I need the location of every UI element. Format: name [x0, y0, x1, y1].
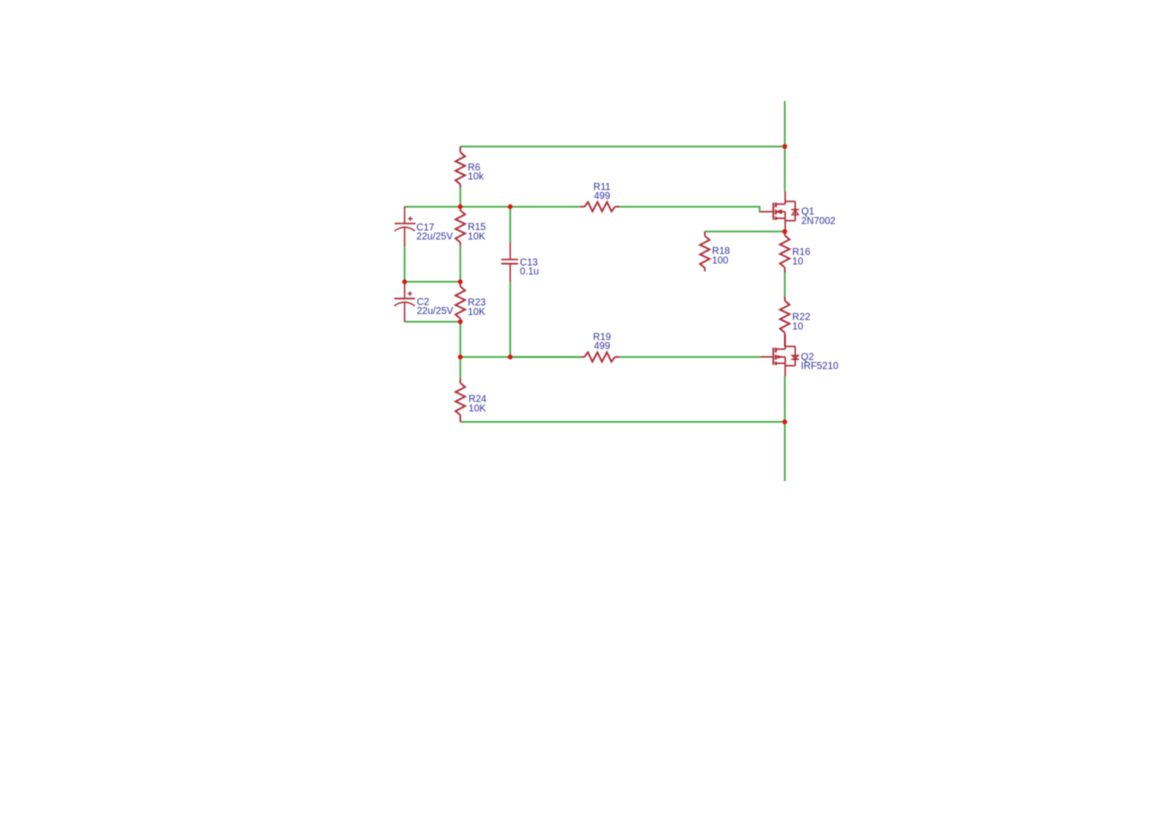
wire R19 net horizontal left	[460, 356, 581, 358]
svg-text:10K: 10K	[468, 307, 486, 318]
resistor R15 bottom lead	[459, 242, 461, 245]
transistor Q1 source horizontal from channel	[776, 217, 786, 219]
transistor Q1 drain lead	[784, 191, 786, 204]
resistor R16 bottom lead	[784, 268, 786, 273]
svg-text:499: 499	[594, 341, 610, 352]
wire C17 bottom to node row	[404, 246, 406, 282]
transistor Q1 body arrow (hollow, pointing to channel)	[777, 210, 782, 213]
svg-text:2N7002: 2N7002	[801, 216, 835, 227]
capacitor C17 top plate	[395, 223, 416, 225]
junction C17/C2 at R15/R23	[458, 279, 463, 284]
junction C2 bottom at R23	[458, 319, 463, 324]
transistor Q2 gate lead	[760, 356, 772, 358]
wire top horizontal	[460, 146, 785, 148]
svg-text:10k: 10k	[468, 172, 484, 183]
resistor R24 bottom lead	[459, 415, 461, 422]
wire C13 bottom segment	[509, 282, 511, 357]
wire R11 net horizontal right with jog to Q1 gate	[619, 207, 761, 212]
resistor R11 499	[585, 202, 616, 211]
capacitor C13 bottom plate	[501, 263, 518, 265]
transistor Q2 body line	[777, 356, 786, 358]
resistor R16 10	[780, 236, 790, 268]
transistor Q2 gate bar	[772, 348, 774, 365]
transistor Q1 drain horizontal to channel	[776, 203, 786, 205]
svg-text:499: 499	[594, 191, 610, 202]
transistor Q2 source lead	[784, 335, 786, 349]
wire C13 top segment	[509, 207, 511, 243]
resistor R6 bottom lead	[459, 184, 461, 187]
wire C2 bottom horizontal	[405, 321, 461, 323]
transistor Q2 drain horizontal from channel	[776, 362, 786, 364]
svg-text:100: 100	[712, 256, 729, 267]
transistor Q2 body-drain vertical	[784, 357, 786, 363]
wire right vertical rail top segment	[784, 101, 786, 191]
wire R16 to R22 segment	[784, 272, 786, 296]
resistor R23 10K	[456, 287, 466, 319]
resistor R23 top lead	[459, 282, 461, 287]
resistor R15 10K	[456, 210, 466, 242]
transistor Q2 source tee to body diode	[785, 345, 795, 347]
resistor R6 top lead	[459, 147, 461, 153]
transistor Q1 body-source vertical	[784, 212, 786, 219]
svg-text:10: 10	[792, 321, 803, 332]
transistor Q2 body diode cathode bar	[791, 358, 799, 360]
transistor Q2 body diode branch	[794, 346, 796, 365]
transistor Q1 body diode branch	[794, 201, 796, 220]
junction R19 net at C13	[508, 355, 513, 360]
capacitor C13 top lead	[509, 242, 511, 259]
capacitor C13 top plate	[501, 259, 518, 261]
wire R11 net horizontal left	[405, 206, 580, 208]
transistor Q1 gate bar	[772, 203, 774, 220]
transistor Q2 drain lead	[784, 363, 786, 376]
transistor Q1 drain tee to body diode	[785, 200, 795, 202]
capacitor C2 bottom lead	[404, 303, 406, 322]
svg-text:10K: 10K	[469, 404, 487, 415]
junction bottom rail	[782, 420, 787, 425]
junction top-right	[782, 144, 787, 149]
capacitor C2 plus sign	[408, 292, 412, 296]
wire bottom horizontal	[460, 421, 785, 423]
svg-text:22u/25V: 22u/25V	[417, 306, 454, 317]
junction C17/C2 left	[402, 279, 407, 284]
resistor R24 10K	[456, 383, 466, 415]
transistor Q1 body line	[777, 211, 786, 213]
transistor Q1 body diode triangle	[792, 210, 799, 215]
transistor Q2 source horizontal to channel	[776, 348, 786, 350]
resistor R22 10	[780, 301, 790, 333]
resistor R11 left lead	[580, 206, 584, 208]
junction R11 net at C13	[508, 204, 513, 209]
wire left column vertical between nodes	[459, 322, 461, 357]
capacitor C2 bottom curved plate	[394, 302, 415, 306]
wire node row C17/R15 horizontal	[405, 281, 461, 283]
transistor Q2 body diode triangle	[792, 355, 799, 358]
svg-text:10K: 10K	[468, 231, 486, 242]
resistor R18 100	[700, 236, 710, 268]
transistor Q1 body diode cathode bar	[791, 209, 799, 211]
transistor Q2 channel bottom segment	[775, 362, 777, 365]
transistor Q1 source lead	[784, 218, 786, 231]
capacitor C2 top plate	[394, 298, 415, 300]
capacitor C2 top lead	[404, 282, 406, 298]
transistor Q1 channel top segment	[775, 203, 777, 208]
resistor R18 top lead	[704, 232, 706, 236]
resistor R19 499	[584, 352, 615, 361]
transistor Q1 gate lead	[761, 211, 773, 213]
resistor R16 top lead	[784, 232, 786, 236]
transistor Q2 channel middle segment	[775, 355, 777, 360]
resistor R22 bottom lead	[784, 333, 786, 347]
transistor Q2 channel top segment	[775, 348, 777, 353]
resistor R19 right lead	[615, 356, 620, 358]
capacitor C13 bottom lead	[509, 264, 511, 282]
junction Q1 source / R16 / R18	[782, 229, 787, 234]
resistor R22 top lead	[784, 297, 786, 301]
wire R24 top segment	[459, 357, 461, 379]
wire R19 net center segment	[510, 356, 581, 358]
transistor Q1 channel bottom segment	[775, 217, 777, 220]
svg-text:22u/25V: 22u/25V	[416, 232, 453, 243]
resistor R23 bottom lead	[459, 319, 461, 322]
capacitor C17 bottom curved plate	[395, 227, 415, 231]
resistor R6 10k	[456, 152, 466, 184]
transistor Q2 body arrow (filled, pointing outward)	[778, 355, 784, 358]
svg-text:10: 10	[792, 257, 803, 268]
junction R11 net at R15	[458, 204, 463, 209]
junction R19 net at left column	[458, 355, 463, 360]
resistor R11 right lead	[615, 206, 619, 208]
capacitor C17 plus sign	[408, 217, 412, 221]
wire R15 bottom to node row	[459, 245, 461, 281]
transistor Q1 channel middle segment	[775, 210, 777, 215]
wire R19 net to Q2 gate	[620, 356, 761, 358]
transistor Q2 drain tee to body diode	[785, 365, 795, 367]
resistor R24 top lead	[459, 379, 461, 384]
resistor R15 top lead	[459, 207, 461, 211]
capacitor C17 top lead	[404, 207, 406, 223]
resistor R18 bottom open tail	[704, 268, 706, 272]
transistor Q1 source tee to body diode	[785, 220, 795, 222]
capacitor C17 bottom lead	[404, 228, 406, 247]
resistor R19 left lead	[582, 356, 585, 358]
wire R6 bottom to node	[459, 187, 461, 207]
wire R18 net horizontal	[705, 231, 785, 233]
svg-text:IRF5210: IRF5210	[801, 361, 839, 372]
svg-text:0.1u: 0.1u	[520, 266, 539, 277]
wire Q2 drain down to bottom rail	[784, 376, 786, 481]
